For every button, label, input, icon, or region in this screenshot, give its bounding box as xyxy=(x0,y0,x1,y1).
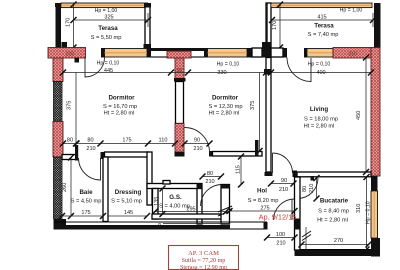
svg-text:115: 115 xyxy=(236,165,242,174)
svg-text:Dormitor: Dormitor xyxy=(108,95,135,102)
label window living xyxy=(308,62,331,68)
wall red corner top-left xyxy=(48,48,86,59)
svg-text:Hp = 0,10: Hp = 0,10 xyxy=(217,62,240,68)
dim 170 terrace2 xyxy=(272,2,283,51)
label window bucatarie rotated xyxy=(366,201,372,224)
wall red band top-right xyxy=(333,48,371,59)
svg-text:210: 210 xyxy=(348,52,357,58)
wall baie/dressing xyxy=(103,157,108,222)
wall segment dormitor2 right xyxy=(252,48,262,57)
wall top band (dormitor1/dormitor2) xyxy=(147,48,208,57)
svg-text:330: 330 xyxy=(217,70,226,76)
svg-text:Hp = 0,10: Hp = 0,10 xyxy=(308,62,331,68)
dim 80/210 bucatarie door rotated xyxy=(302,175,320,202)
svg-text:80: 80 xyxy=(67,138,73,144)
label Terasa 2 xyxy=(308,23,339,39)
dim 90/210 hol-bucatarie opening xyxy=(268,178,297,193)
door arc living-terrace xyxy=(287,58,311,82)
wall entry right pier xyxy=(221,185,231,225)
dim 80/210 entry door xyxy=(200,171,225,185)
wall gs right xyxy=(197,184,203,225)
svg-text:Terasa: Terasa xyxy=(98,25,118,32)
svg-text:Ap. 9/12/15: Ap. 9/12/15 xyxy=(259,213,297,222)
svg-text:210: 210 xyxy=(205,179,214,185)
window bucatarie Hp=0.10 vertical xyxy=(371,191,378,238)
svg-text:210: 210 xyxy=(279,187,288,193)
window terrace2 Hp=1.00 xyxy=(271,3,372,8)
dim 170 terrace1 xyxy=(66,2,77,51)
wall terrace2 left xyxy=(266,3,272,48)
svg-text:Hp = 1,00: Hp = 1,00 xyxy=(95,8,118,14)
svg-text:S = 7,40 mp: S = 7,40 mp xyxy=(308,32,339,38)
door arc hol-dormitor2 xyxy=(185,128,210,153)
dim 415 terrace2 xyxy=(269,8,376,28)
dim 295 gs xyxy=(152,207,229,215)
wall terrace1 left xyxy=(55,3,67,50)
door arc dormitor1-terrace xyxy=(85,58,105,78)
window terrace1 Hp=1.00 xyxy=(61,3,148,8)
wall terrace1 right xyxy=(144,3,152,52)
break marks entry wall xyxy=(218,206,232,216)
wall baie north xyxy=(62,145,78,161)
svg-text:AP. 3 CAM: AP. 3 CAM xyxy=(188,250,219,257)
label Terasa 1 xyxy=(91,25,122,41)
svg-text:Hol: Hol xyxy=(257,188,267,195)
svg-text:175: 175 xyxy=(122,138,131,144)
svg-text:S = 8,40 mp: S = 8,40 mp xyxy=(318,209,349,215)
wall bucatarie left xyxy=(295,177,301,250)
label bucatarie xyxy=(317,198,349,224)
svg-text:20: 20 xyxy=(157,222,162,228)
svg-text:375: 375 xyxy=(250,101,256,110)
svg-text:210: 210 xyxy=(86,146,95,152)
label window dormitor2 xyxy=(217,62,240,68)
dim 275 hol xyxy=(227,206,298,215)
svg-text:445: 445 xyxy=(104,68,113,74)
door arc bucatarie xyxy=(298,178,319,199)
dim 375 dormitor1 xyxy=(67,73,80,147)
stamp box AP. 3 CAM xyxy=(169,246,239,270)
wall gs top xyxy=(147,181,202,189)
dim 450 living xyxy=(356,55,369,176)
label dormitor1 xyxy=(103,95,137,117)
dim 20 offset xyxy=(157,222,230,228)
svg-text:S = 16,70 mp: S = 16,70 mp xyxy=(103,104,137,110)
svg-text:Terasa: Terasa xyxy=(314,23,334,30)
label window dormitor1 xyxy=(97,61,120,67)
svg-text:90: 90 xyxy=(281,178,287,184)
label dressing xyxy=(111,189,142,205)
wall junction blob terrace2/living xyxy=(262,42,271,58)
svg-text:170: 170 xyxy=(272,21,278,30)
svg-text:Sutila = 77,20 mp: Sutila = 77,20 mp xyxy=(182,258,226,264)
svg-text:310: 310 xyxy=(356,204,362,213)
svg-text:210: 210 xyxy=(66,52,75,58)
svg-text:80: 80 xyxy=(207,171,213,177)
wall segment living left xyxy=(271,48,287,58)
svg-text:400: 400 xyxy=(316,70,325,76)
break marks bucatarie left wall ext xyxy=(302,227,311,249)
svg-text:S = 4,00 mp: S = 4,00 mp xyxy=(159,204,190,210)
svg-text:Dormitor: Dormitor xyxy=(212,95,239,102)
wall left insulation hatch 1 xyxy=(54,82,63,122)
svg-text:210: 210 xyxy=(276,241,285,247)
label living xyxy=(304,106,338,130)
dim 260 baie xyxy=(62,155,74,220)
label dormitor2 xyxy=(209,95,243,117)
door arc entry xyxy=(201,185,223,207)
svg-text:325: 325 xyxy=(104,15,113,21)
svg-text:270: 270 xyxy=(334,238,343,244)
svg-text:210: 210 xyxy=(309,184,315,193)
svg-text:Hp = 1,00: Hp = 1,00 xyxy=(340,8,363,14)
dim 175 baie xyxy=(59,210,106,219)
svg-text:415: 415 xyxy=(317,15,326,21)
wall dormitor2/living xyxy=(265,58,273,177)
svg-text:175: 175 xyxy=(81,210,90,216)
svg-text:375: 375 xyxy=(67,101,73,110)
wall dressing/gs xyxy=(147,152,152,205)
door jamb dormitor1 terrace door xyxy=(75,58,80,63)
svg-text:Ht = 2,80 ml: Ht = 2,80 ml xyxy=(304,124,335,130)
wall left red upper xyxy=(53,58,63,82)
dim 115 hol xyxy=(236,154,245,188)
svg-text:80: 80 xyxy=(87,138,93,144)
svg-text:100: 100 xyxy=(276,232,285,238)
dim 135 gs xyxy=(154,186,166,218)
wall right red hatch xyxy=(371,48,380,177)
wall left red middle xyxy=(53,122,63,158)
door arc baie xyxy=(79,158,101,180)
wall partition dormitor1/dormitor2 xyxy=(174,78,186,157)
svg-text:90: 90 xyxy=(177,68,183,74)
svg-text:G.S.: G.S. xyxy=(169,194,182,201)
dim 375 dormitor2 xyxy=(250,73,263,155)
wall red pier top (between dormitors) xyxy=(167,51,191,79)
svg-text:Hp = 0,10: Hp = 0,10 xyxy=(366,201,372,224)
svg-text:Ht = 2,80 ml: Ht = 2,80 ml xyxy=(104,111,135,117)
svg-text:210: 210 xyxy=(193,146,202,152)
svg-text:Baie: Baie xyxy=(79,189,93,196)
wall bottom baie/dressing/gs xyxy=(54,222,268,230)
svg-text:145: 145 xyxy=(124,210,133,216)
door arc hol south (100/210) xyxy=(274,199,295,220)
svg-text:Ht = 2,80 ml: Ht = 2,80 ml xyxy=(317,218,348,224)
svg-text:170: 170 xyxy=(66,18,72,27)
wall bucatarie top xyxy=(293,171,372,181)
window dormitor2 Hp=0.10 xyxy=(204,48,252,58)
svg-text:Sterasa = 12,90 mp: Sterasa = 12,90 mp xyxy=(180,265,227,270)
dim 145 dressing xyxy=(108,210,150,219)
label gs xyxy=(159,194,190,210)
svg-text:Living: Living xyxy=(310,106,328,113)
svg-text:90: 90 xyxy=(194,138,200,144)
wall gs bottom xyxy=(152,214,226,219)
wall dressing north xyxy=(101,152,149,159)
svg-text:S = 12,30 mp: S = 12,30 mp xyxy=(209,104,243,110)
svg-text:Ht = 2,80 ml: Ht = 2,80 ml xyxy=(209,111,240,117)
svg-text:110: 110 xyxy=(159,138,168,144)
wall left bottom corner black xyxy=(54,219,67,230)
dim 270 bucatarie xyxy=(299,238,372,248)
label apartment number red xyxy=(259,213,297,222)
wall bucatarie right black top xyxy=(371,176,378,191)
label hol xyxy=(248,188,279,205)
door arc hol-living passage xyxy=(273,153,293,173)
window dormitor1 Hp=0.10 xyxy=(101,48,151,58)
wall bucatarie bottom xyxy=(295,250,381,257)
svg-text:S = 5,10 mp: S = 5,10 mp xyxy=(111,199,142,205)
svg-text:Bucatarie: Bucatarie xyxy=(320,198,349,205)
svg-text:S = 18,00 mp: S = 18,00 mp xyxy=(304,117,338,123)
svg-text:260: 260 xyxy=(62,183,68,192)
svg-text:Hp = 0,10: Hp = 0,10 xyxy=(97,61,120,67)
label baie xyxy=(71,189,102,205)
svg-text:80: 80 xyxy=(302,186,308,192)
dim 325 terrace1 xyxy=(71,8,152,27)
wall left insulation hatch 2 xyxy=(54,157,63,219)
svg-text:275: 275 xyxy=(260,206,269,212)
wall terrace2 right xyxy=(374,3,381,49)
wall gs left xyxy=(153,189,159,220)
wall hol north xyxy=(209,140,262,157)
wall bucatarie right black bottom xyxy=(371,238,380,257)
svg-text:S = 8,20 mp: S = 8,20 mp xyxy=(248,198,279,204)
svg-text:S = 4,50 mp: S = 4,50 mp xyxy=(71,199,102,205)
dim 100/210 hol south door xyxy=(264,232,298,247)
svg-text:S = 5,50 mp: S = 5,50 mp xyxy=(91,35,122,41)
svg-text:Dressing: Dressing xyxy=(115,189,142,196)
dim 310 bucatarie xyxy=(356,174,370,253)
svg-text:450: 450 xyxy=(356,111,362,120)
window living Hp=0.10 xyxy=(304,48,333,58)
